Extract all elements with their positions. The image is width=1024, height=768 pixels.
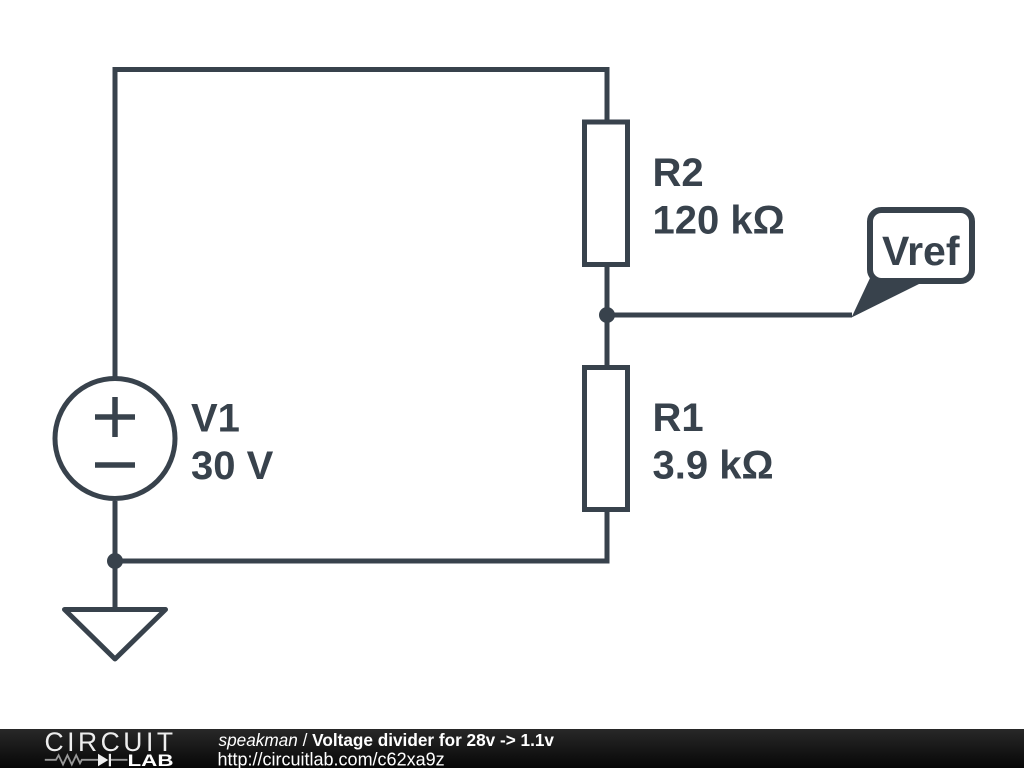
svg-text:R2: R2 (653, 151, 704, 195)
svg-text:LAB: LAB (128, 751, 174, 768)
svg-text:http://circuitlab.com/c62xa9z: http://circuitlab.com/c62xa9z (218, 749, 445, 768)
svg-text:120 kΩ: 120 kΩ (653, 199, 785, 243)
svg-text:speakman / Voltage divider for: speakman / Voltage divider for 28v -> 1.… (219, 730, 555, 750)
svg-text:Vref: Vref (882, 228, 960, 274)
svg-text:R1: R1 (653, 396, 704, 440)
svg-text:30 V: 30 V (191, 444, 274, 488)
svg-text:3.9 kΩ: 3.9 kΩ (653, 444, 774, 488)
svg-text:V1: V1 (191, 397, 240, 441)
